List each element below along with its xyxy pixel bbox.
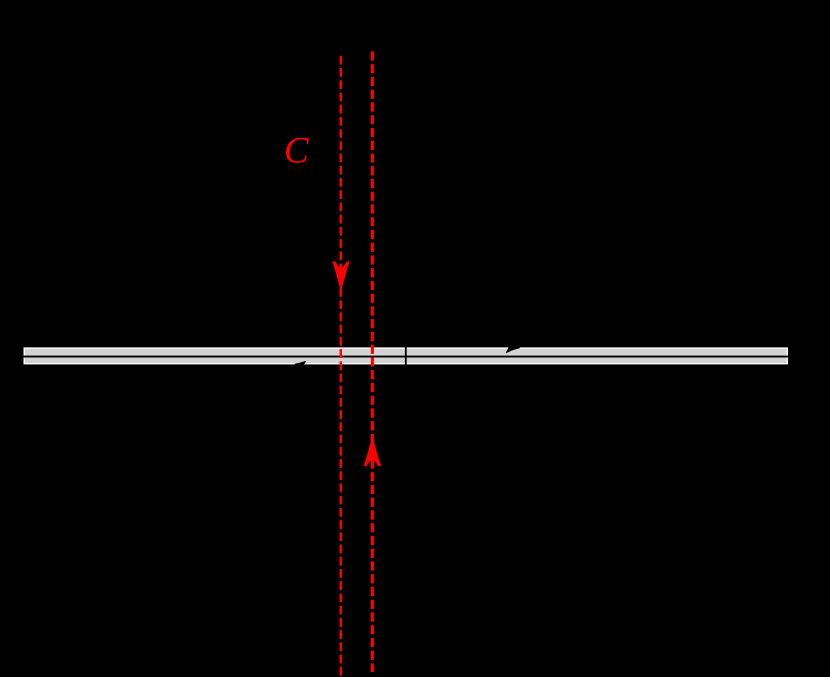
contour C up arrowhead [364,436,382,467]
tick crossing slab [405,347,407,364]
arrow barb on top surface [506,345,520,353]
contour C left dashed line [340,56,342,677]
slab (current sheet) outer white rim [24,347,789,364]
svg-text:C: C [284,131,310,172]
arrow barb on bottom surface [293,361,306,367]
slab gray fill [25,349,787,363]
sheet mid line [24,356,789,358]
contour C right dashed line [371,51,374,672]
contour C down arrowhead [332,261,350,292]
